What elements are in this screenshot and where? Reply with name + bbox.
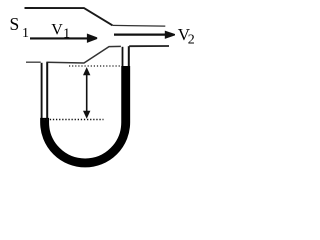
- manometer liquid column (black U): [45, 66, 126, 163]
- svg-text:V: V: [51, 22, 63, 39]
- upper dotted level line: [69, 65, 121, 67]
- svg-text:S: S: [10, 14, 20, 34]
- right manometer tube right wall: [128, 46, 130, 70]
- wide pipe top wall: [25, 8, 113, 25]
- svg-text:1: 1: [63, 26, 70, 41]
- right manometer tube left wall: [122, 47, 124, 70]
- narrow pipe bottom wall right segment: [129, 45, 169, 47]
- label V2: [178, 25, 195, 47]
- V2 arrow: [114, 31, 175, 39]
- height difference double arrow: [83, 67, 90, 119]
- left manometer tube left wall: [41, 63, 43, 122]
- left manometer tube right wall: [46, 62, 48, 122]
- narrow pipe top wall: [112, 24, 165, 27]
- lower dotted level line: [44, 119, 104, 121]
- v1 arrow: [30, 34, 97, 43]
- label S1: [10, 14, 30, 41]
- label v1: [51, 22, 70, 42]
- svg-text:2: 2: [188, 32, 195, 47]
- wide pipe bottom wall left segment: [26, 61, 41, 63]
- wide pipe bottom wall right segment and converging slant: [46, 46, 121, 63]
- svg-text:1: 1: [22, 26, 29, 41]
